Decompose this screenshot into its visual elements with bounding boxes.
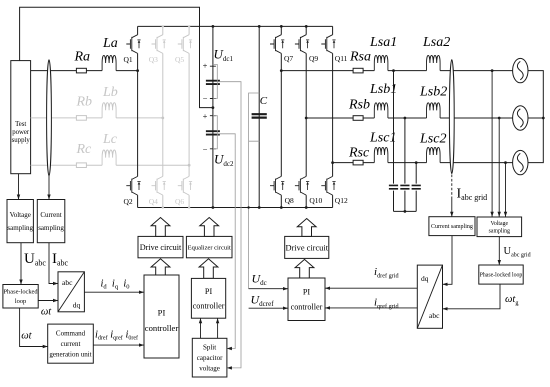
- wire leg Q3Q4: [162, 26, 164, 207]
- wire to voltage sampling: [18, 174, 20, 200]
- inductor Lsa2: [427, 55, 441, 70]
- svg-text:Q8: Q8: [285, 196, 294, 205]
- node: [404, 210, 407, 213]
- wire Iabc grid sense: [451, 199, 453, 217]
- svg-text:Current sampling: Current sampling: [431, 224, 473, 230]
- wire phase C supply: [31, 164, 190, 166]
- transistor Q3: [152, 35, 166, 54]
- wire leg Q1Q2: [137, 26, 139, 207]
- wire phase C out: [333, 162, 513, 164]
- wire supply neutral to cap midpoint: [20, 7, 213, 107]
- wire phase A out: [281, 70, 512, 72]
- node: [188, 164, 191, 167]
- svg-text:Voltage: Voltage: [490, 221, 508, 227]
- svg-text:Rsc: Rsc: [348, 145, 370, 160]
- capacitor Udc1 ticks: [210, 66, 216, 149]
- svg-text:Command: Command: [56, 330, 86, 338]
- node: [258, 206, 261, 209]
- node: [280, 69, 283, 72]
- node: [305, 117, 308, 120]
- block dq/abc transform grid: [417, 265, 442, 328]
- svg-text:controller: controller: [193, 301, 225, 310]
- node: [161, 117, 164, 120]
- block drive circuit 2: [285, 236, 329, 258]
- wire sense Udc1 bracket: [213, 65, 241, 368]
- svg-text:Q12: Q12: [335, 196, 348, 205]
- wire filter cap leg B: [404, 118, 406, 211]
- svg-text:Lsa2: Lsa2: [422, 35, 450, 50]
- wire current sampling to dq grid: [443, 236, 453, 285]
- node: [542, 117, 545, 120]
- wire filter cap star bar: [394, 210, 417, 212]
- node: [305, 206, 308, 209]
- wire idq0 to PI: [84, 291, 144, 293]
- svg-text:controller: controller: [291, 303, 323, 312]
- svg-text:Lsc1: Lsc1: [369, 131, 396, 146]
- node: [491, 69, 494, 72]
- hollow arrow PI1 to drive1: [151, 259, 170, 275]
- node: [188, 25, 190, 27]
- wire iref to PI: [93, 344, 144, 346]
- resistor Rc: [76, 163, 86, 168]
- current transformer oval supply: [47, 60, 52, 176]
- svg-text:Q3: Q3: [149, 55, 158, 64]
- resistor Rsb: [353, 116, 363, 121]
- svg-text:Lsb2: Lsb2: [419, 85, 447, 100]
- svg-text:sampling: sampling: [7, 224, 33, 232]
- wire C leg: [258, 26, 260, 207]
- wire filter cap leg C: [415, 163, 417, 212]
- svg-text:Rsa: Rsa: [349, 50, 371, 65]
- svg-text:C: C: [260, 95, 268, 107]
- wire voltage sampling to PLL grid: [498, 237, 500, 265]
- wire phase A supply: [31, 70, 138, 72]
- node: [212, 106, 215, 109]
- svg-text:Phase-locked: Phase-locked: [4, 289, 39, 296]
- transistor Q9: [295, 35, 309, 54]
- capacitor Udc1: [206, 81, 220, 84]
- block equalizer circuit: [186, 236, 232, 257]
- node: [212, 25, 215, 28]
- node: [392, 69, 395, 72]
- transistor Q2: [126, 176, 140, 195]
- wire leg Q9Q10: [305, 26, 307, 207]
- resistor Rsa: [353, 68, 363, 73]
- svg-text:Q9: Q9: [309, 54, 318, 63]
- node: [188, 206, 190, 208]
- svg-text:Drive circuit: Drive circuit: [285, 243, 328, 252]
- svg-text:Voltage: Voltage: [10, 211, 31, 219]
- svg-text:dq: dq: [421, 274, 429, 283]
- svg-text:dq: dq: [73, 301, 81, 310]
- svg-text:Q5: Q5: [175, 55, 184, 64]
- svg-text:PI: PI: [158, 308, 166, 318]
- inductor Lsb1: [374, 103, 388, 118]
- inductor Lsc1: [374, 147, 388, 162]
- svg-text:Rsb: Rsb: [348, 97, 370, 112]
- transistor Q4: [152, 176, 166, 195]
- svg-text:Rb: Rb: [76, 95, 93, 110]
- block split capacitor voltage: [192, 338, 227, 377]
- node: [331, 161, 334, 164]
- node: [258, 25, 261, 28]
- node: [305, 25, 308, 28]
- node: [247, 206, 249, 208]
- wire cap leg: [212, 26, 214, 207]
- node: [504, 161, 507, 164]
- svg-text:voltage: voltage: [199, 365, 220, 373]
- resistor Ra: [76, 68, 86, 73]
- wire phase B supply: [31, 117, 163, 119]
- svg-text:Test: Test: [15, 121, 26, 128]
- svg-text:Q4: Q4: [149, 197, 158, 206]
- block PI controller 2: [191, 278, 225, 318]
- node: [162, 25, 164, 27]
- node: [415, 161, 418, 164]
- inductor La: [102, 55, 116, 70]
- svg-text:PI: PI: [303, 288, 311, 297]
- capacitor C: [252, 114, 267, 117]
- node: [162, 206, 164, 208]
- svg-text:loop: loop: [15, 298, 26, 305]
- wire sense Udc2 bracket: [213, 116, 235, 349]
- wire Iabc grid sense dashed: [451, 175, 453, 200]
- ac source phase C: [513, 150, 528, 174]
- wire Uabc sense A: [491, 71, 493, 217]
- hollow arrow drive1 to bridge: [151, 218, 170, 237]
- svg-text:Q10: Q10: [309, 196, 322, 205]
- wire Udcref to PI3: [249, 307, 288, 309]
- svg-text:Q7: Q7: [284, 54, 293, 63]
- svg-text:sampling: sampling: [38, 224, 64, 232]
- svg-text:Rc: Rc: [76, 142, 93, 157]
- block test power supply: [11, 61, 31, 174]
- svg-text:Phase-locked loop: Phase-locked loop: [480, 273, 523, 279]
- current transformer oval grid: [449, 60, 454, 174]
- ac source phase A: [513, 58, 528, 82]
- svg-text:Equalizer circuit: Equalizer circuit: [188, 244, 231, 251]
- block voltage sampling grid: [477, 217, 522, 237]
- node: [212, 206, 215, 209]
- wire leg Q5Q6: [188, 26, 190, 207]
- svg-text:Q6: Q6: [175, 197, 184, 206]
- wire split to PI2 a: [200, 318, 202, 338]
- svg-text:Lsb1: Lsb1: [369, 82, 397, 97]
- capacitor Cfa: [389, 185, 398, 188]
- svg-text:controller: controller: [145, 323, 179, 333]
- wire Uabc sense C: [505, 163, 507, 217]
- svg-text:Lb: Lb: [102, 85, 118, 100]
- svg-text:capacitor: capacitor: [197, 354, 223, 362]
- svg-text:Q11: Q11: [335, 54, 348, 63]
- wire phase B out: [306, 117, 512, 119]
- block phase-locked loop grid: [479, 265, 523, 284]
- svg-text:abc: abc: [62, 278, 73, 287]
- svg-text:PI: PI: [205, 287, 213, 296]
- svg-text:abc: abc: [429, 311, 440, 320]
- block PI controller 3: [288, 278, 325, 321]
- svg-text:Drive circuit: Drive circuit: [140, 243, 182, 252]
- svg-text:Lc: Lc: [102, 132, 118, 147]
- wire Uabc to PLL: [20, 243, 22, 285]
- wire to current sampling: [48, 176, 50, 200]
- inductor Lsb2: [427, 103, 441, 118]
- wire idref grid wire: [325, 287, 417, 289]
- svg-text:power: power: [12, 129, 30, 136]
- block abc/dq transform: [58, 272, 84, 312]
- svg-text:Q1: Q1: [124, 55, 133, 64]
- svg-text:−: −: [203, 144, 208, 154]
- wire leg Q11Q12: [332, 26, 334, 207]
- wire iqref grid wire: [325, 307, 417, 309]
- hollow arrow PI2 to equalizer: [199, 259, 218, 279]
- svg-text:generation unit: generation unit: [49, 350, 91, 358]
- wire grid bus right: [528, 71, 543, 163]
- block current sampling grid: [429, 217, 475, 236]
- inductor Lsc2: [427, 147, 441, 162]
- svg-text:+: +: [203, 61, 208, 71]
- hollow arrow drive2 to bridge: [297, 219, 316, 237]
- block phase-locked loop: [3, 285, 38, 309]
- node: [280, 25, 283, 28]
- capacitor Cfb: [400, 185, 409, 188]
- wire Uabc sense B: [498, 118, 500, 217]
- svg-text:ωt: ωt: [41, 307, 52, 318]
- svg-text:−: −: [203, 94, 208, 104]
- node: [280, 206, 283, 209]
- transistor Q1: [126, 35, 140, 54]
- hollow arrow PI3 to drive2: [295, 259, 314, 278]
- resistor Rb: [76, 116, 86, 121]
- node: [136, 69, 139, 72]
- svg-text:Lsa1: Lsa1: [369, 35, 397, 50]
- svg-text:Split: Split: [203, 343, 216, 351]
- wire C bracket / Udc sense: [249, 93, 260, 289]
- svg-text:La: La: [102, 36, 118, 51]
- svg-text:Lsc2: Lsc2: [419, 131, 446, 146]
- transistor Q5: [178, 35, 192, 54]
- resistor Rsc: [353, 160, 363, 165]
- transistor Q6: [178, 176, 192, 195]
- block current sampling: [37, 200, 65, 243]
- inductor Lb: [102, 103, 116, 118]
- wire dc bus top: [138, 25, 333, 27]
- wire split to PI2 b: [217, 318, 219, 338]
- node: [404, 117, 407, 120]
- wire leg Q7Q8: [280, 26, 282, 207]
- capacitor Udc2: [206, 131, 220, 134]
- node: [498, 117, 501, 120]
- wire PLL to command: [20, 308, 48, 347]
- inductor Lc: [102, 150, 116, 165]
- block voltage sampling: [7, 200, 34, 243]
- svg-text:Q2: Q2: [124, 197, 133, 206]
- svg-text:Current: Current: [40, 211, 61, 219]
- transistor Q12: [321, 176, 335, 195]
- svg-text:sampling: sampling: [489, 229, 510, 235]
- svg-text:ωt: ωt: [21, 331, 32, 342]
- wire Udc to PI3: [249, 288, 288, 290]
- svg-text:supply: supply: [12, 137, 31, 144]
- svg-text:+: +: [203, 111, 208, 121]
- block PI controller 1: [144, 275, 179, 358]
- svg-text:Ra: Ra: [74, 50, 91, 65]
- wire Iabc to dq: [49, 243, 58, 284]
- transistor Q7: [270, 35, 284, 54]
- block drive circuit 1: [138, 236, 183, 257]
- wire dc bus bottom: [138, 207, 333, 209]
- transistor Q8: [270, 176, 284, 195]
- block command current generation unit: [48, 324, 94, 363]
- ac source phase B: [513, 106, 528, 130]
- capacitor Cfc: [412, 185, 421, 188]
- transistor Q11: [321, 35, 335, 54]
- transistor Q10: [295, 176, 309, 195]
- svg-text:current: current: [61, 340, 81, 348]
- inductor Lsa1: [374, 55, 388, 70]
- wire PLL to dq: [38, 300, 58, 302]
- wire wtg to dq grid: [443, 284, 501, 309]
- wire filter cap leg A: [393, 71, 395, 212]
- hollow arrow equalizer to bridge: [200, 218, 219, 237]
